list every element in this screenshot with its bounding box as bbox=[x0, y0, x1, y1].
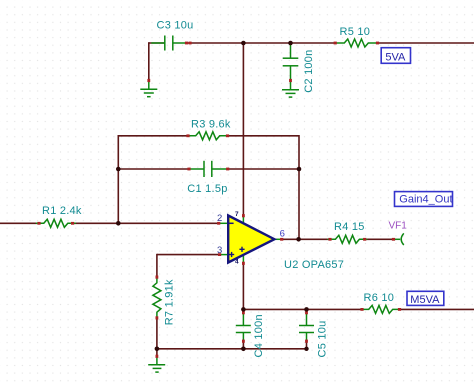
svg-text:C2 100n: C2 100n bbox=[303, 49, 315, 92]
junction C1 left bbox=[116, 167, 121, 172]
resistor R7 bbox=[153, 278, 161, 318]
wire C5 bottom lead lower bbox=[306, 342, 308, 350]
op-amp plus mark supply bbox=[239, 247, 244, 252]
op-amp minus mark bbox=[229, 222, 233, 224]
svg-text:R7 1.91k: R7 1.91k bbox=[164, 279, 176, 325]
svg-text:C5 10u: C5 10u bbox=[317, 321, 329, 358]
svg-text:C4 100n: C4 100n bbox=[253, 314, 265, 357]
wire R1 to pin 2 bbox=[73, 222, 219, 224]
wire main supply vertical bbox=[242, 43, 244, 216]
resistor R4 bbox=[327, 235, 367, 243]
probe VF1 symbol bbox=[394, 233, 404, 245]
svg-text:M5VA: M5VA bbox=[410, 294, 440, 306]
pin end ticks bbox=[37, 42, 401, 358]
wire R4 to VF1 bbox=[365, 238, 394, 240]
wire output to R4 bbox=[281, 238, 330, 240]
svg-text:Gain4_Out: Gain4_Out bbox=[399, 194, 452, 206]
wire op-amp negative supply bbox=[242, 263, 244, 309]
capacitor C5 bbox=[299, 310, 314, 342]
svg-text:R5 10: R5 10 bbox=[340, 26, 371, 38]
wire feedback right vertical bbox=[298, 135, 300, 239]
svg-text:R4 15: R4 15 bbox=[334, 221, 365, 233]
junction C4 top bbox=[241, 307, 246, 312]
svg-text:R6 10: R6 10 bbox=[364, 292, 395, 304]
wire R6 to M5VA edge bbox=[400, 308, 474, 310]
wire R7 to bottom node bbox=[156, 318, 158, 349]
op-amp U2 triangle bbox=[228, 216, 274, 263]
junction output node bbox=[296, 237, 301, 242]
wire pin 3 vertical to R7 bbox=[156, 254, 158, 277]
capacitor C3 bbox=[151, 36, 186, 51]
op-amp U2 input pin stubs bbox=[219, 216, 282, 264]
svg-text:C1 1.5p: C1 1.5p bbox=[187, 183, 227, 195]
wire C1 row right bbox=[228, 168, 299, 170]
junction node A top rail bbox=[241, 41, 246, 46]
resistor R6 bbox=[361, 305, 401, 313]
wire mid rail C4 to R6 bbox=[243, 308, 362, 310]
wire R3 row right bbox=[228, 135, 300, 137]
svg-text:R3 9.6k: R3 9.6k bbox=[191, 118, 231, 130]
capacitor C1 bbox=[190, 161, 227, 177]
resistor R3 bbox=[188, 132, 228, 140]
capacitor C4 bbox=[236, 310, 251, 342]
svg-text:7: 7 bbox=[235, 211, 239, 218]
wire top rail right to 5VA bbox=[376, 42, 474, 44]
junction C2 top bbox=[288, 41, 293, 46]
junction R7 bottom bbox=[155, 347, 160, 352]
svg-text:R1 2.4k: R1 2.4k bbox=[42, 205, 82, 217]
net label M5VA bbox=[407, 291, 444, 306]
junction C5 top bbox=[304, 307, 309, 312]
svg-text:3: 3 bbox=[217, 245, 222, 256]
svg-text:6: 6 bbox=[280, 228, 285, 239]
wire R7 node to ground bbox=[156, 349, 158, 357]
svg-text:C3 10u: C3 10u bbox=[157, 19, 194, 31]
svg-text:VF1: VF1 bbox=[389, 221, 408, 232]
net label Gain4_Out bbox=[395, 192, 453, 207]
svg-text:2: 2 bbox=[217, 213, 222, 224]
wire bottom rail bbox=[157, 348, 307, 350]
ground under C2 bbox=[282, 81, 299, 98]
junction C4 bottom bbox=[241, 347, 246, 352]
wire feedback left vertical bbox=[117, 135, 119, 223]
ground under R7 bbox=[148, 357, 165, 373]
resistor R5 bbox=[336, 39, 376, 47]
capacitor C2 bbox=[283, 44, 299, 81]
wire top rail left (C3 to node A) bbox=[149, 42, 165, 44]
wire R1 input bbox=[0, 222, 39, 224]
junction C1 right bbox=[297, 167, 302, 172]
junction R1 feedback bbox=[116, 221, 121, 226]
svg-text:U2 OPA657: U2 OPA657 bbox=[284, 259, 344, 271]
net label 5VA bbox=[381, 48, 410, 64]
resistor R1 bbox=[36, 219, 76, 227]
wire C3 ground drop bbox=[148, 42, 150, 80]
wire C1 row left bbox=[118, 168, 189, 170]
wire pin 3 horizontal bbox=[157, 254, 220, 256]
op-amp plus mark input bbox=[229, 252, 234, 257]
wire R3 row left bbox=[118, 135, 188, 137]
wire C4 bottom lead lower bbox=[242, 342, 244, 350]
svg-text:5VA: 5VA bbox=[385, 52, 406, 64]
svg-text:4: 4 bbox=[235, 258, 239, 265]
wire top rail mid bbox=[186, 42, 336, 44]
junction C5 bottom bbox=[304, 347, 308, 351]
ground under C3 bbox=[140, 81, 157, 97]
